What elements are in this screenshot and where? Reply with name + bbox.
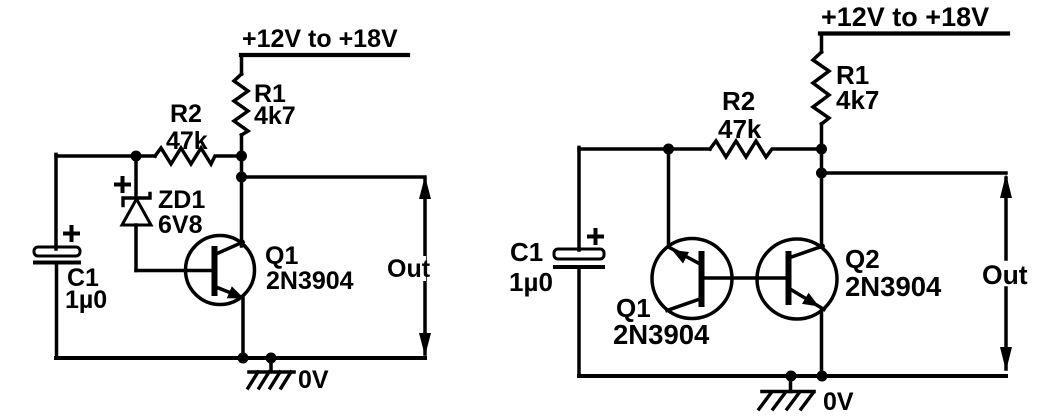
svg-text:1µ0: 1µ0 (509, 267, 553, 297)
transistor Q1 collector stroke open (right circuit) (667, 299, 700, 311)
node junction ground tap (left circuit) (266, 353, 277, 364)
wire left side down to C1 (left circuit) (54, 154, 58, 249)
value label C1 1u0 (left circuit) (65, 264, 107, 314)
wire supply rail (right circuit) (820, 31, 1008, 35)
svg-text:ZD1: ZD1 (158, 186, 205, 214)
node junction Q1 emitter tap (right circuit) (663, 144, 674, 155)
svg-text:47k: 47k (718, 114, 762, 144)
wire R1 to node (right circuit) (820, 124, 824, 149)
value label C1 1u0 (right circuit) (509, 237, 553, 297)
ground symbol 0V (left circuit) (248, 358, 294, 388)
node junction R1/R2 (right circuit) (816, 144, 827, 155)
wire left top segment (right circuit) (579, 147, 710, 151)
net label 0V (right circuit) (823, 388, 854, 416)
svg-text:Q1: Q1 (265, 242, 298, 270)
node junction output (left circuit) (236, 172, 247, 183)
node junction emitter/rail (right circuit) (817, 371, 828, 382)
transistor Q1 body circle (left circuit) (186, 236, 255, 305)
node/net label +12V to +18V (right circuit) (821, 2, 989, 32)
wire output node to collector (left circuit) (240, 177, 244, 246)
transistor Q1 collector stroke (left circuit) (216, 242, 243, 254)
svg-text:Out: Out (982, 260, 1028, 290)
wire Q1 base to Q2 base (right circuit) (702, 276, 790, 280)
net label 0V (left circuit) (298, 366, 329, 394)
wire ZD1 anode down (left circuit) (134, 225, 138, 271)
polarity plus sign ZD1 (left circuit) (116, 178, 129, 191)
svg-text:0V: 0V (298, 366, 329, 394)
node junction ground tap (right circuit) (786, 371, 797, 382)
value label R2 47k (left circuit) (166, 100, 208, 155)
capacitor C1 (right circuit) (554, 249, 604, 267)
transistor Q1 base bar (left circuit) (212, 249, 218, 293)
wire from rail to R1 (left circuit) (240, 55, 244, 74)
wire R2 node down to Q1 emitter (right circuit) (667, 149, 671, 247)
value label ZD1 6V8 (left circuit) (158, 186, 205, 239)
resistor R2 (left circuit) (155, 148, 242, 164)
wire rail to R1 (right circuit) (820, 34, 824, 53)
net label Out (left circuit) (387, 255, 431, 283)
node junction emitter/rail (left circuit) (238, 353, 249, 364)
wire C1 bottom to rail (left circuit) (55, 263, 59, 358)
svg-text:2N3904: 2N3904 (613, 319, 710, 350)
wire C1 to bottom rail (right circuit) (577, 268, 581, 377)
wire node to output node (right circuit) (820, 149, 824, 173)
svg-text:+12V to +18V: +12V to +18V (242, 25, 398, 53)
wire output node to Q2 collector (right circuit) (820, 173, 824, 247)
wire R1 bottom to node (left circuit) (240, 135, 244, 156)
wire supply rail (left circuit) (241, 53, 408, 57)
value label R1 4k7 (left circuit) (254, 80, 296, 130)
svg-text:R2: R2 (170, 100, 202, 128)
wire left side down to C1 (right circuit) (577, 147, 581, 250)
label Q2 2N3904 (right circuit) (845, 244, 942, 302)
Out measurement arrow (right circuit) (1000, 174, 1012, 371)
wire ZD1 top (left circuit) (134, 156, 138, 198)
svg-text:4k7: 4k7 (254, 102, 296, 130)
svg-text:Out: Out (387, 255, 431, 283)
transistor Q2 body circle (right circuit) (757, 239, 837, 319)
svg-text:Q2: Q2 (845, 244, 880, 274)
transistor Q1 emitter stroke with arrow (left circuit) (216, 286, 244, 298)
wire left top segment to R2 (left circuit) (56, 154, 155, 158)
ground symbol 0V (right circuit) (759, 376, 814, 409)
svg-text:2N3904: 2N3904 (845, 271, 942, 302)
transistor Q1 body circle (right circuit) (652, 239, 732, 319)
svg-text:1µ0: 1µ0 (65, 286, 107, 314)
resistor R1 (left circuit) (234, 74, 248, 135)
transistor Q1 base bar (right circuit) (699, 254, 705, 304)
svg-text:C1: C1 (510, 237, 543, 267)
svg-text:+12V to +18V: +12V to +18V (821, 2, 989, 32)
polarity plus sign C1 (right circuit) (589, 230, 602, 243)
resistor R2 (right circuit) (710, 141, 822, 157)
value label R1 4k7 (right circuit) (836, 60, 879, 115)
wire output to Out arrow (right circuit) (822, 171, 1007, 175)
zener diode ZD1 (left circuit) (122, 194, 151, 226)
Out measurement arrow (left circuit) (385, 176, 431, 356)
label Q1 2N3904 (right circuit) (613, 293, 710, 350)
value label R2 47k (right circuit) (718, 86, 762, 144)
svg-text:6V8: 6V8 (158, 211, 203, 239)
wire output to Out arrow (left circuit) (242, 175, 426, 179)
wire Q2 emitter to rail (right circuit) (820, 311, 824, 376)
wire node to output node (left circuit) (240, 156, 244, 177)
node junction output (right circuit) (816, 168, 827, 179)
transistor Q2 emitter stroke with arrow (right circuit) (790, 289, 824, 310)
net label Out (right circuit) (982, 260, 1028, 290)
node junction ZD1 top (left circuit) (131, 151, 142, 162)
svg-text:47k: 47k (166, 127, 208, 155)
wire bottom rail (left circuit) (56, 356, 425, 360)
wire ZD1 to Q1 base (left circuit) (136, 269, 213, 273)
wire Q1 emitter to rail (left circuit) (241, 298, 245, 358)
wire bottom rail (right circuit) (579, 374, 1006, 378)
svg-text:4k7: 4k7 (836, 85, 879, 115)
capacitor C1 (left circuit) (34, 247, 80, 263)
resistor R1 (right circuit) (813, 52, 829, 124)
label Q1 2N3904 (left circuit) (265, 242, 354, 295)
svg-text:2N3904: 2N3904 (266, 267, 354, 295)
node junction R1/R2 (left circuit) (236, 151, 247, 162)
svg-text:R2: R2 (722, 86, 755, 116)
svg-text:0V: 0V (823, 388, 854, 416)
polarity plus sign C1 (left circuit) (65, 227, 78, 240)
transistor Q2 base bar (right circuit) (786, 254, 792, 302)
transistor Q2 collector stroke (right circuit) (790, 246, 823, 258)
transistor Q1 emitter stroke with arrow (right circuit) (669, 247, 701, 264)
node/net label +12V to +18V (left circuit) (242, 25, 398, 53)
